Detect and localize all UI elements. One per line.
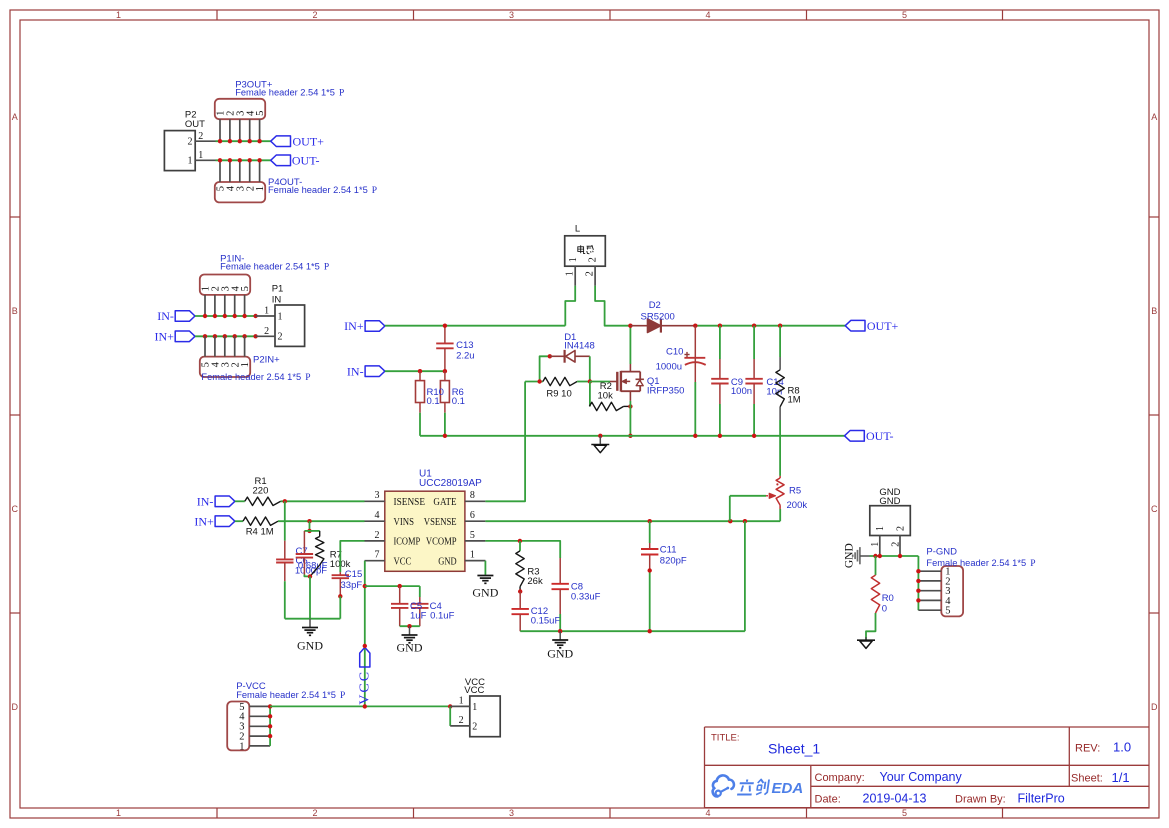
rev value 1.0	[1113, 739, 1131, 754]
resistor R6	[440, 371, 449, 436]
capacitor C13	[436, 326, 453, 372]
svg-text:GND: GND	[297, 639, 323, 653]
C7 label	[296, 546, 308, 557]
wire VSENSE	[485, 520, 780, 522]
svg-text:5: 5	[902, 808, 907, 818]
wire flag to R4	[235, 520, 243, 522]
svg-text:Date:: Date:	[815, 793, 841, 805]
ground (bars) under C4	[402, 626, 418, 643]
svg-text:OUT-: OUT-	[292, 153, 320, 167]
wire gate	[590, 381, 617, 383]
svg-text:VINS: VINS	[394, 517, 415, 528]
wire gnd rail left	[285, 618, 341, 620]
svg-text:1: 1	[470, 550, 475, 561]
svg-text:IN-: IN-	[197, 494, 214, 508]
P-GND label	[926, 546, 957, 557]
svg-text:L: L	[575, 224, 580, 235]
junction rail C8	[558, 629, 562, 633]
svg-text:P2IN+: P2IN+	[253, 355, 280, 366]
R1 labels	[253, 476, 269, 497]
P2 pin 2 numbers	[188, 131, 204, 148]
P1 pin 1 numbers	[264, 306, 282, 323]
GND label under U1 pin1	[472, 586, 498, 600]
wire D1 cathode branch	[589, 356, 591, 381]
diode D1	[550, 350, 590, 363]
svg-text:2: 2	[891, 542, 902, 547]
svg-text:10k: 10k	[598, 391, 614, 402]
svg-text:7: 7	[375, 550, 380, 561]
drawn-by value	[1018, 791, 1065, 805]
wire R9 left	[525, 381, 543, 383]
junction C6/R7 bottom	[308, 574, 312, 578]
wire IN+ main	[385, 325, 565, 327]
rev label	[1075, 742, 1100, 754]
GND label under C7	[297, 639, 323, 653]
wire Q1 source	[629, 401, 631, 436]
svg-text:2: 2	[459, 715, 464, 726]
svg-text:33pF: 33pF	[341, 580, 363, 591]
resistor R0	[866, 556, 880, 640]
svg-text:2: 2	[264, 326, 269, 337]
resistor R9	[543, 377, 577, 385]
svg-text:R5: R5	[789, 486, 801, 497]
wire R4 to pin4	[278, 520, 365, 522]
svg-text:2019-04-13: 2019-04-13	[863, 791, 927, 805]
junctions OUT- row	[218, 158, 262, 162]
resistor R10	[416, 371, 425, 436]
wire IN- main	[385, 370, 445, 372]
wire to gnd rail	[309, 576, 311, 618]
connector GND box	[870, 506, 911, 536]
title label	[711, 733, 740, 744]
svg-text:8: 8	[470, 490, 475, 501]
svg-text:A: A	[12, 112, 18, 122]
R5 wiper dot	[776, 483, 778, 485]
svg-text:P: P	[372, 186, 377, 196]
svg-text:Female header 2.54 1*5: Female header 2.54 1*5	[926, 558, 1026, 568]
net flag OUT- (top)	[271, 155, 291, 166]
D1 labels	[564, 332, 595, 351]
P2 designator	[185, 109, 197, 120]
net flag IN+ (U1)	[215, 516, 235, 527]
resistor R5	[776, 476, 784, 509]
junction VSENSE C11	[648, 519, 652, 523]
capacitor C5	[391, 586, 408, 626]
svg-text:GND: GND	[438, 556, 457, 567]
svg-text:IN: IN	[272, 295, 282, 306]
company value	[880, 770, 963, 784]
wire VSENSE to R5	[779, 509, 781, 521]
junction gnd pin1	[878, 554, 882, 558]
P1 name IN	[272, 295, 282, 306]
svg-text:100n: 100n	[731, 386, 752, 397]
R3 labels	[527, 567, 543, 587]
svg-text:Female header 2.54 1*5: Female header 2.54 1*5	[268, 185, 368, 195]
wire OUT- row	[216, 159, 271, 161]
R5 labels	[787, 486, 808, 512]
junction C15 bottom	[338, 594, 342, 598]
svg-text:1: 1	[875, 526, 886, 531]
svg-text:1: 1	[564, 271, 575, 276]
P1 pin 1 stub	[256, 315, 275, 317]
P-GND pin stubs	[918, 571, 941, 610]
P2IN+ footprint label	[201, 372, 310, 383]
junction C13 bottom	[443, 369, 447, 373]
junction gnd R0	[873, 554, 877, 558]
svg-text:GND: GND	[547, 646, 573, 660]
capacitor C4	[411, 586, 428, 626]
svg-text:C: C	[1151, 504, 1158, 514]
wire C5C4 gnd	[400, 625, 420, 627]
svg-text:2: 2	[375, 530, 380, 541]
junction rail R6	[443, 434, 447, 438]
junction Q1 source rail	[628, 434, 632, 438]
svg-text:2: 2	[312, 808, 317, 818]
junction R9 left	[537, 379, 541, 383]
svg-text:5: 5	[902, 10, 907, 20]
sheet value 1/1	[1112, 770, 1130, 785]
wire IN+ row	[195, 335, 256, 337]
wire L pin2 elbow	[595, 286, 630, 326]
C8 labels	[571, 581, 601, 602]
net label IN+ (upper)	[154, 329, 174, 343]
wire VINS drop	[309, 521, 311, 531]
net flag OUT+ (main)	[845, 320, 865, 331]
GND label under C8	[547, 646, 573, 660]
net flag IN- (main)	[365, 366, 385, 377]
net flag VCC	[360, 647, 370, 667]
P-VCC label	[236, 681, 266, 692]
R0 labels	[882, 593, 894, 614]
wire R1 to pin3	[281, 500, 365, 502]
VCC box pin 2 numbers	[459, 715, 478, 732]
svg-text:1: 1	[116, 10, 121, 20]
U1 designator	[419, 468, 432, 479]
junction Q1 drain	[628, 324, 632, 328]
header P3OUT+ body	[215, 99, 265, 119]
wire R2 left drop	[589, 382, 591, 407]
P-VCC junctions	[268, 704, 272, 738]
capacitor C15	[332, 572, 349, 596]
junction R8 top	[778, 324, 782, 328]
R10 labels	[427, 387, 444, 407]
ground (bars) under U1 pin1	[477, 576, 493, 584]
svg-text:1: 1	[240, 362, 251, 367]
GND box pin numbers inside	[875, 526, 906, 531]
svg-text:Company:: Company:	[815, 772, 865, 784]
wire bracket	[304, 530, 319, 532]
capacitor C14	[745, 326, 762, 436]
VCC box pin 1 numbers	[459, 696, 478, 713]
junction rail gnd	[598, 434, 602, 438]
net flag IN+ (main)	[365, 321, 385, 332]
C14 labels	[766, 377, 783, 398]
junction VCC box	[448, 704, 452, 708]
wire VCC feed	[270, 705, 450, 707]
L pin 2 stub	[594, 266, 596, 286]
P4OUT- label	[268, 177, 302, 188]
resistor R7	[310, 531, 324, 577]
date label	[815, 793, 841, 805]
svg-text:GND: GND	[472, 586, 498, 600]
P2 name OUT	[185, 119, 205, 130]
svg-text:0.1: 0.1	[427, 396, 440, 407]
junctions IN- row	[203, 314, 258, 318]
svg-text:820pF: 820pF	[660, 556, 687, 567]
R5 wiper arrow	[730, 493, 776, 498]
svg-text:1: 1	[870, 542, 881, 547]
svg-text:4: 4	[705, 10, 710, 20]
svg-text:3: 3	[509, 808, 514, 818]
inductor L box	[565, 236, 606, 266]
svg-text:P: P	[324, 263, 329, 273]
wire ICOMP	[340, 541, 364, 572]
junction R2 right	[628, 404, 632, 408]
P1 pin 2 numbers	[264, 326, 282, 343]
P-GND junctions	[916, 569, 920, 603]
capacitor C11	[641, 521, 658, 631]
junction VCC node	[363, 584, 367, 588]
net flag IN- (U1)	[215, 496, 235, 507]
svg-text:1: 1	[472, 702, 477, 713]
P1IN- pin stubs	[205, 295, 245, 316]
svg-text:220: 220	[253, 486, 269, 497]
header P4OUT- body	[215, 182, 265, 202]
U1 part number	[419, 478, 482, 489]
R7 labels	[330, 550, 351, 571]
junction D1 anode	[548, 354, 552, 358]
P-GND pin numbers	[945, 567, 951, 617]
junction VSENSE wiper	[728, 519, 732, 523]
svg-text:ISENSE: ISENSE	[394, 497, 426, 508]
U1 left pins	[365, 490, 426, 567]
C6 value	[298, 560, 328, 571]
GND box pin 1 stub	[879, 536, 881, 557]
svg-text:5: 5	[255, 111, 266, 116]
svg-text:TITLE:: TITLE:	[711, 733, 740, 744]
svg-text:Female header 2.54 1*5: Female header 2.54 1*5	[201, 372, 301, 382]
svg-text:200k: 200k	[787, 500, 808, 511]
GND box name	[879, 496, 900, 507]
svg-text:D: D	[12, 702, 19, 712]
wire D1 anode branch	[540, 356, 550, 381]
svg-text:C13: C13	[456, 340, 473, 351]
C7 value	[295, 565, 327, 576]
net label OUT- (main)	[866, 429, 894, 443]
svg-text:1M: 1M	[788, 395, 801, 406]
svg-text:R4 1M: R4 1M	[246, 527, 274, 538]
svg-text:VCC: VCC	[394, 556, 412, 567]
svg-text:D2: D2	[649, 300, 661, 311]
svg-text:OUT-: OUT-	[866, 429, 894, 443]
VCC box designator	[465, 677, 485, 688]
net label IN- (main)	[347, 364, 364, 378]
junctions IN+ row	[203, 334, 258, 338]
wire GATE	[485, 382, 525, 502]
svg-text:1: 1	[198, 150, 203, 161]
net flag IN- (upper)	[175, 311, 195, 322]
svg-text:5: 5	[470, 530, 475, 541]
svg-text:3: 3	[509, 10, 514, 20]
wire R8 to R5	[779, 420, 781, 476]
Q1 labels	[647, 376, 685, 397]
junction C11 bottom	[648, 568, 652, 572]
resistor R3	[516, 541, 524, 592]
junction R3 C12	[518, 589, 522, 593]
VCC box pin 1 stub	[450, 705, 470, 707]
svg-text:OUT+: OUT+	[293, 134, 325, 148]
junction C13 top	[443, 324, 447, 328]
junction VINS node	[307, 519, 311, 523]
wire VCC drop	[364, 561, 366, 707]
svg-text:3: 3	[375, 490, 380, 501]
svg-text:2: 2	[588, 257, 599, 262]
VCC box pin 2 stub	[450, 725, 470, 727]
P2 pin 1 stub	[195, 159, 215, 161]
R4 label	[246, 527, 274, 538]
P1 pin 2 stub	[256, 335, 275, 337]
P2 pin 1 numbers	[188, 150, 204, 167]
svg-text:P-GND: P-GND	[926, 546, 957, 557]
wire C15 to rail	[339, 596, 341, 618]
svg-text:IN4148: IN4148	[564, 340, 595, 351]
net label IN- (upper)	[157, 309, 174, 323]
junction rail C9	[718, 434, 722, 438]
C4 labels	[430, 601, 455, 621]
svg-text:1/1: 1/1	[1112, 770, 1130, 785]
svg-text:1: 1	[264, 306, 269, 317]
junction gnd pin2	[898, 554, 902, 558]
svg-text:C11: C11	[660, 545, 677, 556]
svg-text:ICOMP: ICOMP	[394, 537, 421, 548]
svg-text:1.0: 1.0	[1113, 739, 1131, 754]
U1 right pins	[424, 490, 486, 567]
ground (bars) under C7	[302, 619, 318, 636]
C11 labels	[660, 545, 687, 567]
svg-text:GND: GND	[843, 543, 855, 568]
net label OUT+ (top)	[293, 134, 325, 148]
P2 pin 2 stub	[195, 140, 215, 142]
svg-text:P1: P1	[272, 284, 284, 295]
svg-text:Sheet_1: Sheet_1	[768, 741, 820, 757]
svg-text:1: 1	[459, 696, 464, 707]
VCC box name	[464, 685, 484, 696]
svg-text:B: B	[12, 306, 18, 316]
sheet label	[1071, 773, 1103, 785]
svg-text:SR5200: SR5200	[641, 312, 675, 323]
junction rail C14	[752, 434, 756, 438]
svg-text:C: C	[12, 504, 19, 514]
svg-text:P: P	[1030, 559, 1035, 569]
ground (bars) under C8	[552, 631, 568, 648]
net flag GND (bars sideways)	[853, 547, 870, 564]
svg-text:Female header 2.54 1*5: Female header 2.54 1*5	[220, 262, 320, 272]
wire OUT+ row	[216, 140, 271, 142]
svg-text:VCC: VCC	[464, 685, 484, 696]
C6 label	[296, 556, 308, 567]
svg-text:OUT: OUT	[185, 119, 205, 130]
net flag IN+ (upper)	[175, 331, 195, 342]
C10 labels	[656, 346, 684, 372]
junction VCOMP R3	[518, 539, 522, 543]
wire VCOMP	[485, 541, 560, 558]
R6 labels	[452, 387, 465, 407]
svg-text:5: 5	[945, 606, 950, 617]
P3OUT+ label	[235, 79, 273, 90]
svg-text:VCOMP: VCOMP	[426, 537, 457, 548]
svg-text:C15: C15	[345, 569, 362, 580]
C12 labels	[531, 606, 561, 627]
svg-text:P: P	[339, 89, 344, 99]
GND box pin 2 stub	[899, 536, 901, 557]
L value 电感	[578, 245, 594, 254]
svg-text:1: 1	[568, 257, 579, 262]
P4OUT- pin stubs	[220, 160, 260, 182]
connector P1 box	[275, 305, 305, 346]
svg-text:IN-: IN-	[347, 364, 364, 378]
svg-text:0.1uF: 0.1uF	[430, 611, 454, 622]
svg-text:1uF: 1uF	[410, 611, 427, 622]
svg-text:2: 2	[188, 137, 193, 148]
C15 labels	[341, 569, 363, 591]
junction C10 top	[693, 324, 697, 328]
net label GND flag	[843, 543, 855, 568]
capacitor C12	[512, 592, 529, 632]
svg-text:2: 2	[198, 131, 203, 142]
svg-text:GATE: GATE	[433, 497, 456, 508]
title value Sheet_1	[768, 741, 820, 757]
capacitor C6	[296, 531, 313, 577]
svg-text:1000u: 1000u	[656, 361, 682, 372]
svg-text:4: 4	[705, 808, 710, 818]
IC U1 body	[385, 491, 465, 571]
svg-text:VCC: VCC	[358, 670, 373, 705]
svg-text:4: 4	[375, 510, 380, 521]
connector P2 box	[164, 131, 195, 171]
wire P-VCC bus	[269, 706, 271, 746]
net label IN+ (main)	[344, 319, 364, 333]
wire Q1 drain	[629, 326, 631, 364]
R9 labels	[546, 389, 571, 400]
svg-text:Your Company: Your Company	[880, 770, 963, 784]
ground (triangle) under R0	[857, 637, 875, 648]
svg-text:IN+: IN+	[154, 329, 174, 343]
P2IN+ pin stubs	[205, 336, 245, 356]
svg-text:A: A	[1151, 112, 1157, 122]
wire wiper drop	[729, 496, 731, 521]
svg-text:2: 2	[312, 10, 317, 20]
P2IN+ pin numbers	[201, 361, 252, 367]
resistor R8	[776, 326, 784, 420]
capacitor C9	[711, 326, 728, 436]
junction R10 top	[418, 369, 422, 373]
svg-text:Sheet:: Sheet:	[1071, 773, 1103, 785]
svg-text:2.2u: 2.2u	[456, 351, 475, 362]
svg-text:IN+: IN+	[344, 319, 364, 333]
svg-text:1: 1	[255, 186, 266, 191]
wire gnd row	[870, 555, 919, 557]
svg-text:0.1: 0.1	[452, 396, 465, 407]
wire pin1 gnd	[465, 561, 486, 575]
svg-text:D: D	[1151, 702, 1158, 712]
title block grid	[705, 727, 1149, 808]
header P2IN+ body	[200, 357, 250, 377]
C9 labels	[731, 377, 752, 397]
P3OUT+ footprint label	[235, 88, 344, 99]
wire OUT- rail	[420, 435, 845, 437]
connector VCC box	[470, 696, 500, 737]
GND box pin numbers outside	[870, 542, 901, 547]
